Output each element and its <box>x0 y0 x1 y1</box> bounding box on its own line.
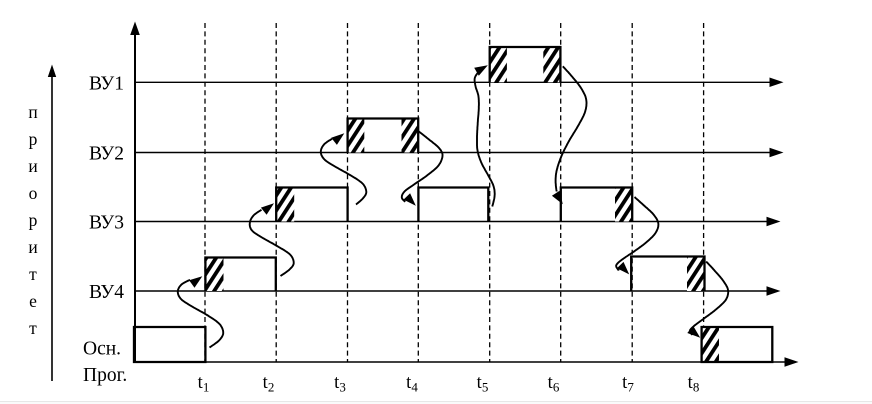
level line VU3 <box>134 217 781 226</box>
VU1 pulse 1 <box>490 47 561 82</box>
dashed marker line t2 <box>275 23 277 362</box>
svg-text:о: о <box>29 183 38 203</box>
main program pulse 2 <box>702 327 773 362</box>
priority axis arrow <box>48 65 56 382</box>
VU3 pulse 2 <box>418 188 488 222</box>
svg-text:р: р <box>29 129 38 149</box>
dashed marker line t1 <box>204 23 206 362</box>
context switch arrow t6 down <box>552 66 587 204</box>
svg-text:ВУ2: ВУ2 <box>89 144 124 165</box>
level line VU1 <box>134 78 784 88</box>
svg-text:ВУ1: ВУ1 <box>89 74 124 95</box>
dashed marker line t8 <box>703 23 705 362</box>
svg-text:т: т <box>29 264 37 284</box>
dashed marker line t6 <box>560 23 562 362</box>
svg-text:Осн.: Осн. <box>83 339 121 360</box>
context switch arrow t5 up <box>474 65 495 206</box>
dashed marker line t7 <box>631 23 633 362</box>
svg-text:и: и <box>28 156 37 176</box>
context switch arrow t7 down <box>616 197 658 274</box>
dashed marker line t5 <box>489 23 491 362</box>
svg-text:р: р <box>29 210 38 230</box>
svg-text:е: е <box>29 291 37 311</box>
dashed marker line t4 <box>417 23 419 362</box>
dashed marker line t3 <box>347 23 349 362</box>
page edge line <box>0 402 872 404</box>
context switch arrow t8 down <box>687 262 728 338</box>
VU4 pulse 2 <box>631 257 704 292</box>
y axis <box>130 22 140 363</box>
svg-text:ВУ3: ВУ3 <box>89 213 124 234</box>
svg-text:Прог.: Прог. <box>83 365 127 386</box>
x axis baseline <box>134 357 799 367</box>
level line VU4 <box>134 286 781 296</box>
VU3 pulse 1 <box>276 188 347 222</box>
vertical label priority <box>28 102 37 338</box>
VU2 pulse 1 <box>348 119 419 153</box>
context switch arrow t3 up <box>321 133 367 204</box>
svg-text:п: п <box>28 102 37 122</box>
level line VU2 <box>134 148 784 157</box>
svg-text:т: т <box>29 318 37 338</box>
context switch arrow t1 up <box>178 276 223 347</box>
context switch arrow t4 down <box>402 131 443 206</box>
svg-text:ВУ4: ВУ4 <box>89 282 124 303</box>
main program pulse 1 <box>134 327 205 362</box>
svg-text:и: и <box>28 237 37 257</box>
VU3 pulse 3 <box>561 188 632 222</box>
context switch arrow t2 up <box>250 203 294 276</box>
VU4 pulse 1 <box>205 258 275 292</box>
